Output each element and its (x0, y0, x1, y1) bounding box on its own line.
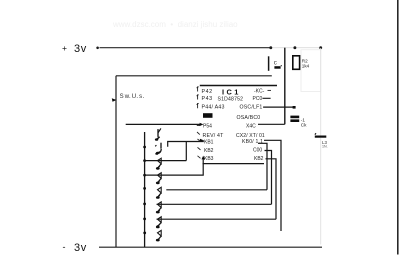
switches group (155, 128, 161, 241)
wire L1 to KB1 (168, 140, 204, 147)
op-amp U1 : IC1 microcontroller (197, 86, 296, 164)
keypad box left edge (115, 76, 117, 247)
arrowhead L0 (200, 123, 204, 126)
right components (258, 48, 328, 245)
diode D1 bar (315, 136, 327, 138)
capacitor C2 wire (268, 56, 270, 71)
wire OSC vertical (284, 48, 286, 125)
svg-text:IC1: IC1 (222, 88, 241, 97)
svg-text:-KC-: -KC- (254, 89, 265, 95)
resistor R1 (293, 56, 300, 70)
switch S5 (156, 181, 161, 199)
keypad box arrow (112, 98, 117, 102)
svg-text:3v: 3v (74, 242, 87, 254)
IC1 top edge (200, 85, 277, 87)
node A dot (269, 46, 272, 49)
riser A (258, 143, 267, 190)
pin 2 stub (263, 97, 271, 99)
svg-text:PC0: PC0 (253, 96, 263, 102)
svg-text:X4C: X4C (246, 123, 256, 129)
IC1 bottom edge (203, 163, 265, 165)
svg-text:P44/ A43: P44/ A43 (202, 105, 225, 111)
svg-text:1k4: 1k4 (302, 64, 310, 69)
wire L6 (157, 218, 277, 220)
switch S6 (156, 195, 161, 213)
svg-text:Ck: Ck (301, 122, 307, 127)
svg-text:1N.: 1N. (322, 144, 328, 148)
svg-text:OSA/BC0: OSA/BC0 (237, 115, 261, 121)
pin 3 wire (263, 106, 295, 108)
arrowhead KB3 (202, 156, 205, 160)
frame right border (397, 0, 399, 255)
svg-text:-: - (63, 242, 66, 252)
svg-text:www.dzsc.com • dianzi jishu: www.dzsc.com • dianzi jishu ziliao (112, 20, 238, 29)
svg-text:KB2: KB2 (254, 156, 264, 162)
svg-text:C: C (274, 61, 277, 67)
svg-text:S w. U. s.: S w. U. s. (120, 94, 145, 100)
svg-text:P54: P54 (203, 124, 212, 130)
diode D1 tick (315, 133, 316, 134)
node C dot (319, 46, 322, 49)
svg-text:REV/ 4T: REV/ 4T (203, 133, 225, 139)
+3v rail faint continuation (271, 47, 321, 49)
riser D (264, 140, 281, 231)
node B dot (293, 46, 296, 49)
switch S2 (155, 143, 161, 154)
svg-text:P43: P43 (202, 96, 213, 102)
ghost box (301, 50, 321, 92)
wire L3 to KB3 (145, 158, 204, 175)
svg-text:3v: 3v (74, 43, 87, 55)
capacitor C2 plate (274, 66, 280, 69)
switch S8 (156, 224, 161, 241)
wire L5 (157, 203, 272, 205)
svg-text:C00: C00 (253, 148, 262, 154)
faint wire to -3v (320, 48, 322, 245)
wire L2 (145, 160, 187, 162)
svg-text:KB3: KB3 (204, 156, 214, 162)
switch S1 (155, 128, 161, 140)
pin 4 TD bold (203, 113, 213, 118)
wire L4 (166, 189, 267, 191)
keypad box top edge (116, 75, 272, 77)
switch S7 (156, 210, 161, 228)
wire riser L1-L2 (185, 142, 187, 161)
pin 1 arrow (197, 86, 199, 91)
column junction dots (143, 146, 146, 149)
svg-text:R2: R2 (302, 58, 308, 63)
svg-text:KB2: KB2 (204, 148, 214, 154)
svg-text:S1D48752: S1D48752 (218, 96, 244, 102)
svg-text:KB1: KB1 (204, 139, 214, 145)
switch column wire (144, 132, 146, 247)
svg-text:+: + (62, 43, 67, 53)
switch S3 (155, 152, 161, 170)
switch S4 (156, 166, 161, 184)
riser C (266, 159, 277, 219)
svg-text:P42: P42 (202, 89, 213, 95)
-3v rail (99, 246, 322, 248)
node dot rail start (96, 47, 99, 50)
wire X4C to resonator (258, 123, 285, 125)
wire L0 to P54 (126, 123, 201, 125)
+3v rail (100, 47, 271, 49)
riser B (265, 151, 272, 205)
svg-text:OSC/LF1: OSC/LF1 (240, 105, 263, 111)
svg-text:KB0/ 1.1: KB0/ 1.1 (242, 139, 263, 145)
resonator C1 plates (290, 116, 299, 119)
arrowhead KB1 (200, 139, 204, 142)
